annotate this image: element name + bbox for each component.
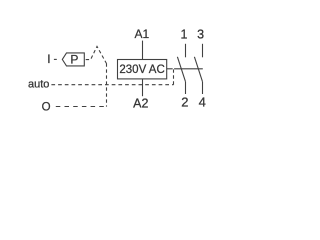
svg-text:O: O — [42, 102, 51, 114]
contact 1-2: terminal lead 2 — [185, 82, 187, 94]
contact 1-2: moving blade — [177, 57, 185, 82]
pressure switch P (flag symbol) — [62, 52, 84, 66]
contact 3-4: terminal lead 4 — [202, 82, 204, 94]
wire: dashed riser from auto line to contact link — [173, 69, 175, 84]
wire: dashed mechanical link with latching detent (caret) — [86, 46, 107, 63]
svg-text:auto: auto — [28, 79, 49, 91]
contact 3-4: moving blade — [194, 57, 202, 82]
wire: auto dashed control line — [51, 84, 173, 86]
svg-text:A2: A2 — [133, 96, 148, 110]
svg-text:4: 4 — [199, 95, 206, 110]
svg-text:I: I — [47, 52, 50, 66]
wire: A2 lead — [142, 79, 144, 96]
coil 230V AC — [118, 60, 167, 79]
contact 1-2: fixed terminal lead 1 — [185, 44, 187, 58]
svg-text:230V AC: 230V AC — [119, 64, 164, 76]
wire: mechanical link from coil to contacts (segment 2) — [174, 68, 203, 70]
wire: O dashed control line — [56, 106, 107, 108]
svg-text:A1: A1 — [134, 27, 149, 41]
svg-text:1: 1 — [181, 28, 188, 42]
wire: mechanical link from coil to contacts (segment 1) — [167, 68, 173, 70]
contact 3-4: fixed terminal lead 3 — [202, 44, 204, 58]
svg-text:2: 2 — [181, 95, 188, 110]
svg-text:P: P — [70, 52, 78, 66]
wire: vertical dashed mechanical link — [106, 63, 108, 106]
svg-text:3: 3 — [197, 28, 204, 42]
wire: dash between I and pressure switch P — [54, 58, 57, 60]
wire: A1 lead — [142, 41, 144, 60]
